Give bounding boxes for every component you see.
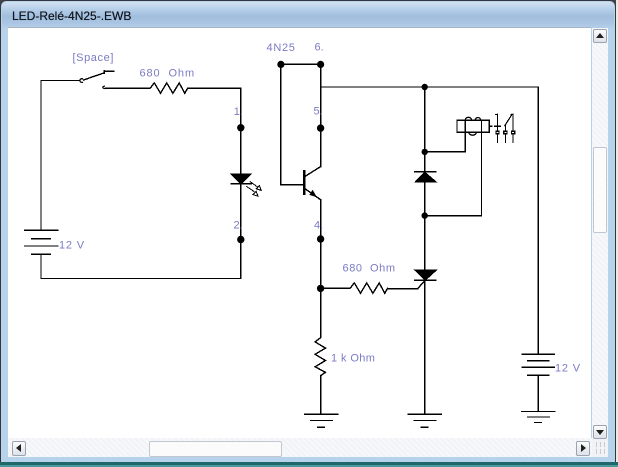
node B (relay coil right junction)	[422, 212, 428, 218]
svg-text:12 V: 12 V	[59, 240, 85, 252]
wire: LED cathode down	[240, 184, 242, 279]
wire: D2 to SCR Q2	[424, 182, 426, 270]
wire: R2 to ground	[320, 376, 322, 415]
svg-text:1.: 1.	[234, 106, 243, 118]
relay K1 coil	[457, 117, 492, 135]
node 4	[317, 235, 324, 242]
svg-text:12 V: 12 V	[555, 363, 581, 375]
diode D2 (freewheel, cathode up)	[415, 172, 436, 182]
wire: V2 to ground	[537, 375, 539, 411]
ground (under R2)	[305, 414, 338, 427]
wire: base into transistor Q1	[281, 184, 304, 186]
node 2 (opto pin 2)	[237, 236, 244, 243]
node: rail junction at relay column	[422, 84, 428, 90]
relay K1 contacts	[495, 114, 515, 142]
wire: SCR cathode to ground	[424, 280, 426, 414]
node 5	[317, 124, 324, 131]
svg-text:4N25: 4N25	[267, 42, 296, 54]
wire: switch to R1	[106, 87, 148, 89]
wire: collector column up to rail	[320, 64, 322, 166]
wire: bottom return to battery V1	[41, 254, 241, 278]
svg-text:6.: 6.	[315, 42, 324, 54]
switch S1	[80, 71, 114, 89]
wire: R1 to node 1 column	[188, 87, 241, 89]
resistor R3 680 Ohm	[348, 283, 388, 293]
LED D1 (4N25 internal LED)	[231, 174, 261, 196]
wire: R3 to SCR gate	[388, 288, 418, 290]
svg-text:[Space]: [Space]	[73, 52, 115, 64]
transistor Q1 (4N25 phototransistor)	[304, 167, 320, 200]
ground (under V2)	[522, 412, 555, 423]
ground (under SCR)	[408, 414, 441, 427]
wire: emitter down	[320, 200, 322, 336]
svg-text:1 k Ohm: 1 k Ohm	[331, 353, 375, 365]
pale background sliver right of window	[616, 0, 618, 461]
node: opto base pin	[277, 61, 284, 68]
wire: battery V1 positive up left side	[40, 81, 42, 231]
wire: to switch S1	[41, 80, 80, 82]
wire: base drop	[280, 64, 282, 184]
wire: gate node to R3	[321, 287, 348, 289]
svg-text:4.: 4.	[314, 220, 323, 232]
node 6	[317, 61, 324, 68]
resistor R2 1 k Ohm (vertical)	[315, 336, 325, 376]
wire: rail down to battery V2	[537, 87, 539, 354]
svg-text:680 Ohm: 680 Ohm	[343, 263, 396, 275]
SCR Q2	[415, 270, 436, 288]
svg-text:680 Ohm: 680 Ohm	[140, 68, 196, 80]
resistor R1	[148, 83, 188, 93]
wire: opto top (base to pin 6)	[281, 63, 321, 65]
teal strip below window	[0, 461, 618, 467]
svg-text:5.: 5.	[314, 106, 323, 118]
battery V2	[522, 354, 554, 375]
node A (relay coil left junction)	[422, 149, 428, 155]
svg-text:2.: 2.	[234, 220, 243, 232]
node: gate junction	[317, 285, 324, 292]
battery V1	[25, 230, 58, 254]
wire: down to LED D1	[240, 88, 242, 174]
wire: node A to relay coil left pin	[425, 120, 466, 152]
wire: rail down to diode D2	[424, 87, 426, 172]
wire: node B to relay coil right pin	[425, 120, 482, 216]
wire: top rail to relay column and V2	[321, 86, 539, 88]
node 1 (opto pin 1)	[237, 124, 244, 131]
